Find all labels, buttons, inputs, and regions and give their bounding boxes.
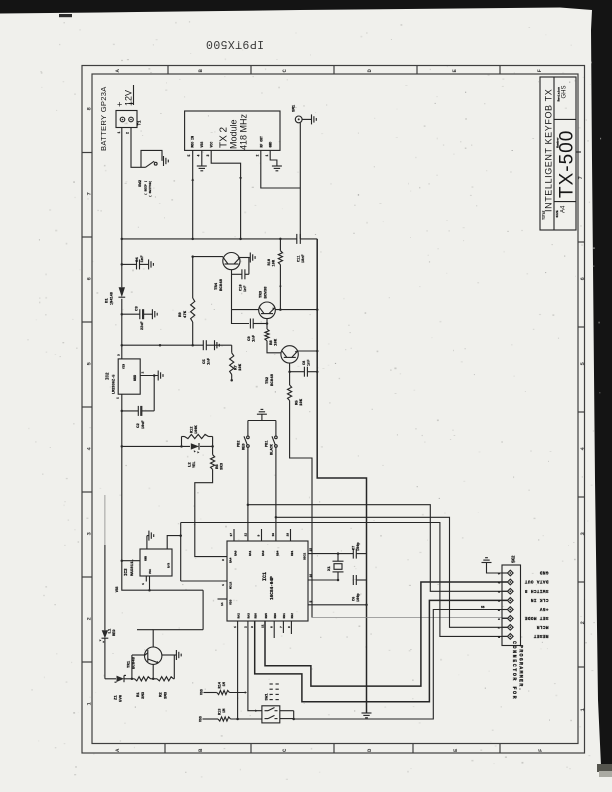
svg-text:R10: R10 <box>268 259 272 265</box>
svg-text:12V: 12V <box>124 90 134 106</box>
svg-text:RB2: RB2 <box>291 613 294 619</box>
svg-text:3: 3 <box>118 354 121 356</box>
wire R7 top <box>231 345 233 353</box>
junction rail at VCC drop <box>239 238 242 241</box>
svg-text:GND: GND <box>145 556 148 561</box>
svg-text:1: 1 <box>117 132 121 134</box>
svg-text:YEL: YEL <box>193 462 197 468</box>
svg-text:1: 1 <box>234 626 237 628</box>
wire C8 to bus <box>307 371 317 373</box>
svg-text:2: 2 <box>244 626 247 628</box>
wire divider rail <box>105 678 116 680</box>
wire TR1 collector <box>153 630 203 647</box>
ground at TR1 <box>175 650 177 660</box>
microcontroller IC1 box <box>227 541 308 621</box>
junction PB1 corner <box>275 516 278 519</box>
wire MCLR run to SK2 pin8 <box>181 523 508 637</box>
svg-text:4: 4 <box>142 583 145 585</box>
wire to LED L2 node <box>122 445 190 447</box>
svg-text:5: 5 <box>310 601 313 603</box>
connector SK2 box <box>502 565 521 646</box>
ground at IC2 <box>157 371 159 381</box>
svg-text:SK2: SK2 <box>513 555 517 563</box>
wire IC3 MR stub <box>167 536 181 549</box>
SK2 pin 4 <box>508 598 514 604</box>
wire TR4 to C9 node <box>232 310 250 324</box>
svg-text:VCC: VCC <box>149 569 152 574</box>
wire TR2 collector to bus <box>297 350 318 352</box>
capacitor C3 electrolytic <box>139 309 141 319</box>
junction IC3 MR <box>179 534 182 537</box>
wire TR4 down lead <box>231 270 233 310</box>
svg-text:Revision: Revision <box>556 87 560 102</box>
wire TX2 pin3 VCC <box>211 150 240 239</box>
wire TR1 bottom lead <box>152 664 154 678</box>
bottom margin zone letters <box>114 748 544 752</box>
resistor R7 <box>230 353 234 375</box>
svg-text:VSS: VSS <box>115 586 119 592</box>
svg-text:SM1: SM1 <box>293 104 297 112</box>
resistor R12 <box>185 434 209 438</box>
svg-text:C11: C11 <box>298 256 302 262</box>
wire TR1 base <box>132 654 145 656</box>
svg-text:IC2: IC2 <box>107 372 111 380</box>
SK2 pin 2 <box>508 579 514 585</box>
pin 12 stub top of IC1 <box>248 540 250 542</box>
svg-text:RESET: RESET <box>533 633 548 639</box>
wire C11 to bus corner <box>300 238 317 240</box>
wire PB1 riser <box>275 421 277 437</box>
wire R13 to SW1 <box>231 718 262 720</box>
capacitor C11 <box>296 234 298 244</box>
svg-text:9: 9 <box>258 535 261 537</box>
capacitor C5 <box>202 340 204 350</box>
terminal block T1 <box>116 111 137 128</box>
ground at SW2 <box>163 156 165 166</box>
svg-text:R5: R5 <box>296 400 300 405</box>
ground at TX2 VSS <box>197 165 207 167</box>
svg-text:1nF: 1nF <box>208 357 212 365</box>
wire TR4 emitter to ground <box>240 257 250 259</box>
wire L1 down to divider <box>104 638 106 679</box>
wire R12 top left <box>182 436 185 438</box>
wire R14 right <box>230 692 246 694</box>
capacitor C2 electrolytic <box>137 406 139 416</box>
junction R10 bottom <box>279 308 282 311</box>
svg-text:MCLR: MCLR <box>536 624 548 630</box>
LED L2 <box>191 443 199 449</box>
svg-text:GHS: GHS <box>562 85 568 98</box>
svg-text:10R: 10R <box>273 259 277 266</box>
svg-text:R9: R9 <box>179 312 183 317</box>
svg-text:11: 11 <box>261 624 264 628</box>
pin stub RB0 <box>273 621 275 638</box>
wire TR3 base <box>232 309 259 311</box>
wire R12 right leg <box>209 436 213 438</box>
wire rail into TR1 line <box>202 590 204 630</box>
ground above push buttons <box>257 413 267 415</box>
wire IC3 gnd stub <box>146 536 148 549</box>
resistor R8 <box>265 329 269 341</box>
svg-text:2: 2 <box>126 132 130 134</box>
wire IC3 vcc from rail <box>122 560 140 562</box>
svg-text:TR4: TR4 <box>215 282 219 290</box>
wire C6 line <box>352 579 355 581</box>
svg-text:10uF: 10uF <box>142 420 146 429</box>
wire TX2 pin4 VSS <box>201 150 203 165</box>
ground at bus bottom <box>362 712 372 714</box>
arrow on R10 wire <box>279 286 282 288</box>
svg-text:7: 7 <box>280 626 283 628</box>
wire SM1 to ground <box>302 118 311 120</box>
svg-text:9: 9 <box>288 626 291 628</box>
svg-text:18nF: 18nF <box>302 254 306 263</box>
junction rail IC3 <box>121 559 124 562</box>
svg-text:C8: C8 <box>303 361 307 365</box>
junction C8 at bus <box>316 370 319 373</box>
wire R5 to RB pin6 line <box>290 401 312 618</box>
svg-text:3M3: 3M3 <box>165 691 169 699</box>
supervisor IC3 box <box>140 549 172 576</box>
wire R9 bottom <box>192 322 194 345</box>
wire R6 bottom to IC1 RA4 <box>195 469 227 556</box>
svg-text:7: 7 <box>86 192 93 195</box>
SK2 pin 8 <box>508 634 514 640</box>
svg-text:RB1: RB1 <box>283 613 286 619</box>
svg-text:CLK IN: CLK IN <box>530 597 548 603</box>
wire TR2 emitter down <box>289 363 291 385</box>
svg-text:X1: X1 <box>328 566 332 571</box>
wire rail below IC2 to corner <box>122 394 203 590</box>
svg-text:R2: R2 <box>160 692 164 697</box>
battery positive rail (T1 pin1 down left side) <box>121 128 123 288</box>
svg-text:RB1: RB1 <box>291 550 294 556</box>
capacitor C10 tap wire <box>232 273 242 275</box>
svg-text:BATTERY GP23A: BATTERY GP23A <box>99 86 108 151</box>
wire PB1 to IC1 top pin <box>275 517 277 541</box>
wire TR3 collector to bus <box>275 309 317 311</box>
SK2 pin 7 <box>508 625 514 631</box>
wire IC3 reset down <box>149 576 151 590</box>
svg-text:10K: 10K <box>300 398 304 406</box>
svg-text:5V6: 5V6 <box>120 694 124 702</box>
wire IC2 gnd pin <box>140 375 158 377</box>
svg-text:TR1: TR1 <box>128 660 132 668</box>
pin stub VDD <box>218 598 228 600</box>
svg-text:3M3: 3M3 <box>142 691 146 699</box>
svg-text:Z1: Z1 <box>115 695 119 700</box>
right margin zone ticks <box>578 242 585 667</box>
svg-text:5: 5 <box>187 155 191 157</box>
SK2 pin 3 <box>508 589 514 595</box>
LED L1 <box>102 630 108 638</box>
svg-text:1: 1 <box>265 155 269 157</box>
junction R6 top <box>211 445 214 448</box>
wire SW1 to SK2 pin5 <box>294 610 508 720</box>
junction PB2 corner <box>247 503 250 506</box>
svg-text:PB1: PB1 <box>266 441 270 447</box>
junction mid rail left <box>159 344 162 347</box>
antenna connector SM1 <box>295 116 302 123</box>
junction C8 tap <box>288 370 291 373</box>
resistor R5 <box>288 385 292 401</box>
resistor R13 <box>218 717 231 721</box>
svg-text:VCC: VCC <box>210 142 214 148</box>
svg-text:RA3: RA3 <box>262 550 265 556</box>
svg-text:100p: 100p <box>357 542 361 551</box>
svg-text:1nF: 1nF <box>141 255 145 263</box>
svg-text:RA4: RA4 <box>230 557 233 563</box>
svg-text:SWITCH 8: SWITCH 8 <box>524 588 548 594</box>
wire MCLR to IC1 <box>181 580 227 582</box>
wire PB2 riser <box>247 421 249 437</box>
wire MCLR riser <box>180 523 182 582</box>
arrow into SW1 <box>255 709 257 712</box>
wire TX2 pin1 GND <box>270 150 277 165</box>
wire T1 pin2 to SW2 <box>131 128 146 168</box>
svg-text:RB4: RB4 <box>277 550 280 556</box>
wire PB top bar <box>248 420 276 422</box>
svg-text:VSS: VSS <box>199 716 203 722</box>
svg-text:Module: Module <box>229 119 239 149</box>
ground at TR4 emitter <box>249 253 251 263</box>
svg-text:T1: T1 <box>139 120 143 126</box>
bottom margin zone ticks <box>165 744 500 754</box>
drawing frame inner border <box>92 74 578 744</box>
svg-text:OSC2: OSC2 <box>304 553 307 560</box>
wire R9 top <box>192 257 194 298</box>
pin stub VSS <box>308 604 367 606</box>
push button PB1 <box>275 436 278 439</box>
svg-text:R7: R7 <box>235 365 239 370</box>
pin stub OSC2 <box>308 553 338 555</box>
capacitor C8 <box>303 367 305 377</box>
svg-text:GND: GND <box>269 142 273 148</box>
junction at C4 <box>121 263 124 266</box>
junction TR1 base <box>131 678 134 681</box>
svg-text:10: 10 <box>272 533 275 537</box>
resistor R10 <box>278 251 282 265</box>
resistor R2 <box>157 677 174 681</box>
svg-text:16C84-04P: 16C84-04P <box>270 576 275 600</box>
wire TR3 emitter to R8 <box>266 319 268 329</box>
top margin zone letters <box>114 69 543 73</box>
ground above SK2 <box>482 562 492 564</box>
capacitor C6 <box>352 575 354 585</box>
svg-text:A4: A4 <box>561 205 567 213</box>
junction rail at battery <box>121 238 124 241</box>
arrow on VCC wire <box>239 177 242 180</box>
wire TR1 emitter <box>162 654 176 656</box>
svg-text:L2: L2 <box>189 462 193 467</box>
svg-text:PB2: PB2 <box>238 441 242 447</box>
svg-text:R12: R12 <box>191 427 195 433</box>
pin stub RB2 <box>290 621 292 634</box>
svg-text:( BEEP (: ( BEEP ( <box>144 180 148 195</box>
svg-text:4: 4 <box>222 584 225 586</box>
svg-text:10K: 10K <box>239 363 243 371</box>
capacitor C10 <box>241 269 243 279</box>
junction at C3 <box>121 313 124 316</box>
svg-text:RED: RED <box>243 443 247 450</box>
svg-text:( SWITCH(: ( SWITCH( <box>148 181 152 197</box>
wire C9 right <box>253 323 267 325</box>
wire R14 left <box>204 692 217 694</box>
pin stub RB1b <box>282 621 284 633</box>
junction TR4 base <box>191 255 194 258</box>
svg-text:RB5: RB5 <box>265 613 268 619</box>
left margin zone ticks <box>82 153 92 663</box>
junction IC3 reset <box>148 589 151 592</box>
scan strip fade at bottom <box>597 764 612 772</box>
svg-text:IC1: IC1 <box>262 572 268 581</box>
wire rail below D1 <box>121 299 123 359</box>
wire SK2 pin1 to ground <box>487 563 503 574</box>
svg-text:22uF: 22uF <box>141 321 145 330</box>
svg-text:CONNECTOR FOR: CONNECTOR FOR <box>511 641 517 700</box>
svg-text:2: 2 <box>256 155 260 157</box>
svg-text:BC848: BC848 <box>220 278 224 291</box>
pin 17 stub top of IC1 <box>233 529 235 541</box>
switch SW2 loop wire <box>141 150 162 167</box>
ground at C4 <box>148 259 150 269</box>
switch SW1 pole 1 <box>265 710 269 712</box>
svg-text:10K: 10K <box>275 338 279 346</box>
wire R10 top <box>279 239 281 251</box>
wire PB ground stem <box>261 414 263 420</box>
wire R12 left leg <box>181 437 183 447</box>
wire RA3 down to SW1 <box>248 621 262 711</box>
capacitor C4 <box>136 259 138 269</box>
dip marks of SW1 <box>270 683 273 685</box>
svg-text:18: 18 <box>287 533 290 537</box>
svg-text:BCW38: BCW38 <box>265 286 269 299</box>
svg-text:3: 3 <box>251 626 254 628</box>
wire PB2 to IC1 top pin <box>247 505 249 541</box>
wire collector left tail <box>137 629 153 631</box>
svg-text:RA0: RA0 <box>235 550 238 556</box>
svg-text:3K3: 3K3 <box>221 462 225 470</box>
pin 10 stub top of IC1 <box>275 540 277 542</box>
junction VSS at bus <box>365 604 368 607</box>
svg-text:IP9TX500: IP9TX500 <box>206 37 264 50</box>
title block box <box>540 77 576 230</box>
wire R2 to ground riser <box>173 655 175 679</box>
svg-text:+5V: +5V <box>539 606 548 612</box>
transistor TR2 <box>281 346 298 363</box>
regulator IC2 box <box>118 359 140 394</box>
junction L2 left <box>180 445 183 448</box>
svg-text:INTELLIGENT KEYFOB TX: INTELLIGENT KEYFOB TX <box>544 89 554 212</box>
svg-text:R6: R6 <box>216 464 220 469</box>
junction C2 left <box>121 410 124 413</box>
svg-text:6: 6 <box>271 626 274 628</box>
wire RB6 staircase to SK2 pin4 <box>255 600 508 701</box>
top margin zone ticks <box>168 66 500 75</box>
wire R7 bottom <box>231 375 233 381</box>
left margin zone numbers <box>86 107 93 706</box>
switch SW1 box <box>262 706 280 723</box>
svg-text:3: 3 <box>222 559 225 561</box>
svg-text:VSS: VSS <box>200 142 204 148</box>
wire SM1 down to C11 rail <box>299 123 301 239</box>
svg-text:C7: C7 <box>353 546 357 550</box>
junction X1 top <box>337 552 340 555</box>
svg-text:15: 15 <box>310 548 313 552</box>
transistor TR3 <box>259 302 276 319</box>
switch SW2 lever and contact <box>146 161 155 167</box>
svg-text:GND: GND <box>134 375 138 381</box>
stray mark below top band <box>59 14 72 17</box>
svg-text:1nF: 1nF <box>308 360 312 366</box>
wire R8 to TR2 base <box>267 341 281 353</box>
svg-text:LM2936Z-5: LM2936Z-5 <box>113 375 117 394</box>
wire SW1 right pins <box>280 710 294 712</box>
wire R6 top lead <box>212 446 214 454</box>
module TX2 box <box>185 111 280 150</box>
wire TR4 base tap <box>193 256 223 258</box>
junction mid rail battery <box>121 344 124 347</box>
junction C9 node <box>266 322 269 325</box>
svg-text:47K: 47K <box>184 310 188 318</box>
svg-text:RED: RED <box>113 629 117 636</box>
drawing frame outer border <box>82 66 585 754</box>
arrow R14 into riser <box>245 691 247 694</box>
resistor R14 <box>217 690 230 694</box>
svg-text:3: 3 <box>206 155 210 157</box>
junction TR1 bottom <box>152 678 155 681</box>
svg-text:2: 2 <box>142 372 145 374</box>
svg-text:1nF: 1nF <box>253 334 257 342</box>
svg-text:TR2: TR2 <box>266 376 270 384</box>
junction L2 wire at rail <box>121 445 124 448</box>
svg-text:R1: R1 <box>137 692 141 697</box>
svg-text:12: 12 <box>245 533 248 537</box>
svg-text:C6: C6 <box>353 597 357 601</box>
SK2 pin 6 <box>508 616 514 622</box>
transistor TR4 <box>223 253 240 270</box>
ground at C3 <box>151 309 153 319</box>
junction RA2 at R13 <box>236 718 239 721</box>
wire ground bus <box>317 239 366 713</box>
diode D1 in rail <box>119 287 125 297</box>
svg-text:1M: 1M <box>223 709 227 713</box>
svg-text:R8: R8 <box>270 340 274 345</box>
junction X1 bottom <box>337 579 340 582</box>
svg-text:17: 17 <box>230 533 233 537</box>
resistor R9 <box>191 298 195 322</box>
svg-text:R14: R14 <box>218 681 222 688</box>
svg-text:SET MODE: SET MODE <box>524 615 548 621</box>
wire R10 bottom <box>279 265 281 310</box>
svg-text:L1: L1 <box>109 628 113 633</box>
svg-text:BLACK: BLACK <box>271 443 275 455</box>
junction TR2 at bus <box>316 350 319 353</box>
svg-text:RF OUT: RF OUT <box>259 136 263 148</box>
svg-text:SW1: SW1 <box>266 693 270 701</box>
svg-text:1M: 1M <box>223 682 227 686</box>
svg-text:1nF: 1nF <box>244 286 248 292</box>
wire RA2 stub down <box>237 621 239 719</box>
svg-text:+: + <box>117 100 122 110</box>
wire RB5 staircase to SK2 pin2 <box>265 582 507 686</box>
svg-text:100K: 100K <box>195 425 199 434</box>
junction rail at R10 <box>279 238 282 241</box>
junction SW1 right <box>292 718 295 721</box>
wire X1 riser top <box>337 554 339 562</box>
arrow on MOD IN wire <box>191 178 194 181</box>
wire X1 riser bottom <box>337 572 339 580</box>
